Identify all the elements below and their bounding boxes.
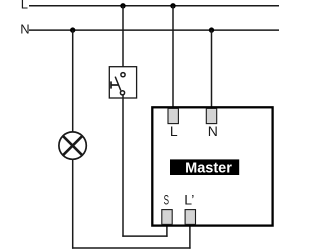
wire N to master N terminal: [211, 30, 213, 112]
wire bottom horizontal to S: [122, 235, 167, 237]
master device U1 box: [152, 107, 272, 225]
switch upper contact: [121, 73, 125, 77]
lamp E1: [59, 132, 86, 159]
svg-text:N: N: [208, 123, 218, 139]
svg-text:L: L: [21, 0, 28, 11]
wire up into S terminal: [166, 222, 168, 237]
switch actuator T-bar: [111, 81, 118, 88]
terminal L' (bottom): [185, 210, 195, 225]
svg-text:L: L: [170, 123, 178, 139]
junction dot on L (master L branch): [170, 3, 175, 8]
svg-text:S: S: [164, 191, 169, 207]
wire L to switch: [122, 6, 124, 73]
terminal S (bottom): [162, 210, 172, 225]
svg-text:Master: Master: [185, 161, 232, 177]
junction dot on N (lamp branch): [70, 27, 75, 32]
svg-text:N: N: [20, 22, 29, 37]
wire bottom horizontal to L': [72, 247, 191, 249]
wire N to lamp: [72, 30, 74, 132]
wire N line: [29, 29, 279, 31]
terminal L (top): [168, 108, 178, 123]
switch lever: [115, 77, 121, 91]
wire L to master L terminal: [172, 6, 174, 112]
switch S1 box: [109, 67, 136, 98]
svg-text:L’: L’: [184, 191, 194, 207]
terminal N (top): [206, 108, 216, 123]
wire up into L' terminal: [189, 222, 191, 249]
switch lower contact: [120, 91, 124, 95]
wire switch to bottom: [122, 95, 124, 237]
wire L line: [29, 5, 279, 7]
master label bar: [170, 159, 239, 175]
junction dot on L (switch branch): [120, 3, 125, 8]
junction dot on N (master N branch): [209, 27, 214, 32]
wire lamp to bottom: [72, 159, 74, 248]
